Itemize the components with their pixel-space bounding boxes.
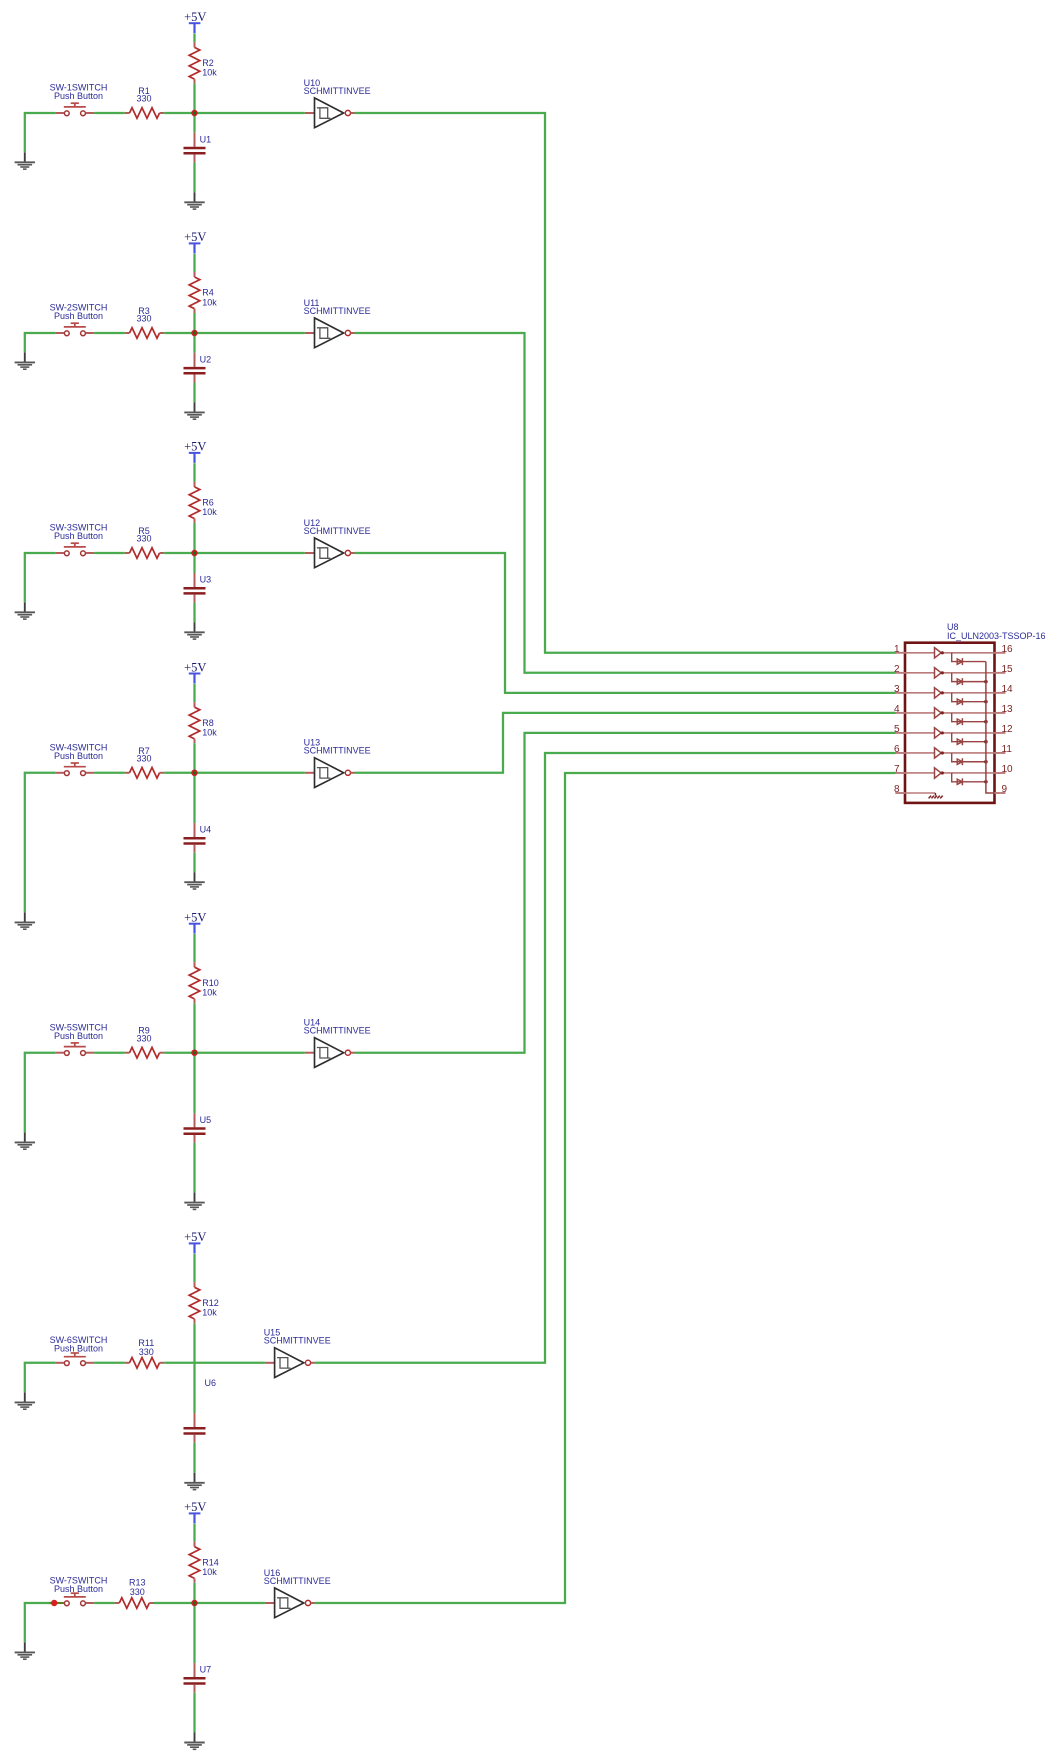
- wire node to capacitor U3: [193, 553, 195, 573]
- ground (below U7): [184, 1733, 204, 1750]
- wire R2 to node (block 1): [193, 83, 195, 113]
- capacitor U1: [184, 133, 206, 163]
- junction (U8 bus row 7): [984, 780, 988, 784]
- junction (U8 bus row 3): [984, 700, 988, 704]
- resistor R13 330 (series): [115, 1598, 154, 1609]
- svg-text:10k: 10k: [202, 68, 217, 78]
- resistor R3 330 (series): [125, 328, 164, 339]
- svg-text:+5V: +5V: [184, 660, 206, 674]
- wire +5V to R8: [193, 684, 195, 702]
- svg-text:+5V: +5V: [184, 10, 206, 24]
- ground (U8 pin 8 internal): [905, 793, 943, 798]
- diode (U8 row 4): [952, 713, 986, 725]
- svg-text:10k: 10k: [202, 1308, 217, 1318]
- wire R11 to node (block 6): [164, 1362, 194, 1364]
- U8 pin 5 (input): [894, 724, 905, 735]
- wire U1 to ground: [193, 162, 195, 192]
- label U15 SCHMITTINVEE: [264, 1328, 331, 1346]
- wire U12 output to U8 pin 3: [355, 553, 896, 693]
- U8 pin 11 (output): [995, 744, 1013, 755]
- ground (below U5): [184, 1193, 204, 1210]
- wire U2 to ground: [193, 383, 195, 403]
- resistor R5 330 (series): [125, 548, 164, 559]
- svg-text:R10: R10: [202, 978, 219, 988]
- wire ground to SW-2: [25, 333, 56, 352]
- wire SW-5 to R9: [94, 1052, 125, 1054]
- diode (U8 row 7): [952, 773, 986, 785]
- svg-text:14: 14: [1002, 684, 1014, 695]
- label R14 10k: [202, 1557, 219, 1577]
- label R13 330: [129, 1578, 146, 1597]
- svg-text:U1: U1: [200, 134, 212, 144]
- svg-text:2: 2: [894, 664, 900, 675]
- U8 pin 4 (input): [894, 704, 905, 715]
- junction (U8 bus row 2): [984, 680, 988, 684]
- wire ground to SW-1: [25, 113, 56, 152]
- U8 pin 8 (GND): [894, 784, 905, 795]
- label SW-5SWITCH Push Button: [50, 1022, 108, 1041]
- label R11 330: [138, 1338, 154, 1357]
- svg-text:Push Button: Push Button: [54, 1344, 103, 1354]
- wire node to U14 input: [195, 1052, 305, 1054]
- label SW-6SWITCH Push Button: [50, 1335, 108, 1354]
- U8 pin 12 (output): [995, 724, 1014, 735]
- wire node to U12 input: [195, 552, 305, 554]
- wire node to U15 input: [195, 1362, 265, 1364]
- power +5V (block 4): [184, 660, 206, 683]
- diode (U8 row 6): [952, 753, 986, 765]
- svg-text:6: 6: [894, 744, 900, 755]
- ground (below U4): [184, 872, 204, 889]
- inverter U16 SCHMITTINVEE: [265, 1588, 315, 1618]
- inverter U10 SCHMITTINVEE: [305, 98, 355, 128]
- wire R7 to node (block 4): [164, 772, 194, 774]
- svg-text:IC_ULN2003-TSSOP-16: IC_ULN2003-TSSOP-16: [947, 631, 1046, 641]
- wire U10 output to U8 pin 1: [355, 113, 896, 653]
- wire node to capacitor U4: [193, 773, 195, 823]
- node junction (block 7): [192, 1600, 198, 1606]
- label R9 330: [136, 1026, 151, 1044]
- svg-text:330: 330: [136, 534, 151, 544]
- U8 pin 14 (output): [995, 684, 1014, 695]
- svg-text:330: 330: [136, 314, 151, 324]
- label R2 10k: [202, 58, 217, 78]
- wire SW-2 to R3: [94, 332, 125, 334]
- resistor R12 10k (pull-up): [189, 1282, 200, 1323]
- wire overlap (left of SW-7): [50, 1602, 64, 1604]
- svg-text:U4: U4: [200, 825, 212, 835]
- switch SW-3 push button: [55, 543, 94, 555]
- wire node to U10 input: [195, 112, 305, 114]
- label R3 330: [136, 306, 151, 324]
- wire ground to SW-4: [25, 773, 56, 913]
- switch SW-6 push button: [55, 1353, 94, 1366]
- resistor R1 330 (series): [125, 108, 164, 119]
- label SW-2SWITCH Push Button: [50, 303, 108, 322]
- svg-text:U6: U6: [205, 1378, 217, 1388]
- resistor R7 330 (series): [125, 768, 164, 779]
- label SW-1SWITCH Push Button: [50, 83, 108, 102]
- wire ground to SW-6: [25, 1363, 56, 1393]
- wire R3 to node (block 2): [164, 332, 194, 334]
- wire U11 output to U8 pin 2: [355, 333, 896, 673]
- ground (below U1): [184, 192, 204, 209]
- wire node to capacitor U6: [193, 1363, 195, 1413]
- wire +5V to R10: [193, 934, 195, 962]
- buffer (U8 row 1): [905, 648, 995, 658]
- switch SW-1 push button: [55, 103, 94, 116]
- svg-text:330: 330: [136, 1033, 151, 1043]
- power +5V (block 7): [184, 1500, 206, 1523]
- label R8 10k: [202, 718, 217, 738]
- U8 pin 6 (input): [894, 744, 905, 755]
- label R4 10k: [202, 288, 217, 308]
- buffer (U8 row 3): [905, 688, 995, 698]
- svg-text:Push Button: Push Button: [54, 91, 103, 101]
- ground (left, block 2): [15, 352, 35, 369]
- wire SW-7 to R13: [94, 1602, 114, 1604]
- wire node to capacitor U2: [193, 333, 195, 353]
- U8 pin 16 (output): [995, 644, 1014, 655]
- resistor R6 10k (pull-up): [189, 482, 200, 523]
- wire SW-3 to R5: [94, 552, 125, 554]
- svg-text:3: 3: [894, 684, 900, 695]
- svg-text:11: 11: [1002, 744, 1013, 755]
- svg-text:10k: 10k: [202, 728, 217, 738]
- label U16 SCHMITTINVEE: [264, 1568, 331, 1586]
- svg-text:SCHMITTINVEE: SCHMITTINVEE: [304, 86, 371, 96]
- svg-text:12: 12: [1002, 724, 1014, 735]
- wire R10 to node (block 5): [193, 1003, 195, 1052]
- svg-text:+5V: +5V: [184, 1500, 206, 1514]
- power +5V (block 6): [184, 1230, 206, 1253]
- capacitor U7: [184, 1663, 206, 1693]
- svg-text:330: 330: [136, 94, 151, 104]
- svg-text:1: 1: [894, 644, 900, 655]
- node junction (block 4): [192, 770, 198, 776]
- wire ground to SW-5: [25, 1053, 56, 1133]
- wire U6 to ground: [193, 1443, 195, 1473]
- buffer (U8 row 6): [905, 748, 995, 758]
- inverter U15 SCHMITTINVEE: [265, 1348, 315, 1378]
- U8 pin 1 (input): [894, 644, 905, 655]
- svg-text:Push Button: Push Button: [54, 751, 103, 761]
- wire SW-1 to R1: [94, 112, 125, 114]
- label U10 SCHMITTINVEE: [304, 78, 371, 96]
- wire node to U11 input: [195, 332, 305, 334]
- capacitor U4: [184, 823, 206, 853]
- label SW-7SWITCH Push Button: [50, 1575, 108, 1594]
- U8 pin 7 (input): [894, 764, 905, 775]
- wire ground to SW-7: [25, 1603, 56, 1642]
- svg-text:R4: R4: [202, 288, 214, 298]
- ground (below U3): [184, 622, 204, 639]
- buffer (U8 row 7): [905, 768, 995, 778]
- power +5V (block 1): [184, 10, 206, 33]
- diode (U8 row 5): [952, 733, 986, 745]
- label U14 SCHMITTINVEE: [304, 1018, 371, 1036]
- bus wire diodes to pin 9: [986, 662, 995, 793]
- switch SW-5 push button: [55, 1043, 94, 1056]
- svg-text:16: 16: [1002, 644, 1014, 655]
- wire node to capacitor U5: [193, 1053, 195, 1114]
- wire +5V to R6: [193, 463, 195, 482]
- svg-text:+5V: +5V: [184, 230, 206, 244]
- inverter U13 SCHMITTINVEE: [305, 758, 355, 788]
- wire node to capacitor U1: [193, 113, 195, 133]
- capacitor U3: [184, 573, 206, 603]
- ground (below U6): [184, 1473, 204, 1490]
- node dot (left of SW-7): [51, 1600, 57, 1606]
- label R10 10k: [202, 978, 219, 998]
- inverter U12 SCHMITTINVEE: [305, 538, 355, 568]
- diode (U8 row 2): [952, 673, 986, 685]
- node junction (block 3): [192, 550, 198, 556]
- power +5V (block 2): [184, 230, 206, 253]
- svg-text:5: 5: [894, 724, 900, 735]
- switch SW-4 push button: [55, 763, 94, 775]
- label U12 SCHMITTINVEE: [304, 518, 371, 536]
- node junction (block 5): [192, 1050, 198, 1056]
- wire U13 output to U8 pin 4: [355, 713, 896, 773]
- wire U16 output to U8 pin 7: [315, 773, 896, 1603]
- svg-text:R8: R8: [202, 718, 214, 728]
- svg-text:+5V: +5V: [184, 440, 206, 454]
- wire +5V to R4: [193, 254, 195, 272]
- svg-text:U3: U3: [200, 575, 212, 585]
- ground (left, block 6): [15, 1392, 35, 1409]
- diode (U8 row 3): [952, 693, 986, 705]
- resistor R9 330 (series): [125, 1047, 164, 1058]
- wire R5 to node (block 3): [164, 552, 194, 554]
- svg-text:Push Button: Push Button: [54, 531, 103, 541]
- svg-text:13: 13: [1002, 704, 1014, 715]
- wire U4 to ground: [193, 853, 195, 873]
- label R6 10k: [202, 498, 217, 518]
- resistor R8 10k (pull-up): [189, 702, 200, 743]
- U8 pin 15 (output): [995, 664, 1014, 675]
- svg-text:15: 15: [1002, 664, 1014, 675]
- ground (left, block 3): [15, 602, 35, 619]
- label U8 IC_ULN2003-TSSOP-16: [947, 622, 1046, 641]
- wire +5V to R14: [193, 1524, 195, 1542]
- svg-text:10: 10: [1002, 764, 1014, 775]
- wire SW-4 to R7: [94, 772, 125, 774]
- wire R8 to node (block 4): [193, 743, 195, 773]
- ground (left, block 1): [15, 152, 35, 169]
- svg-text:4: 4: [894, 704, 900, 715]
- IC U8 ULN2003 body: [905, 643, 995, 803]
- resistor R10 10k (pull-up): [189, 962, 200, 1003]
- inverter U11 SCHMITTINVEE: [305, 318, 355, 348]
- svg-text:8: 8: [894, 784, 900, 795]
- svg-text:Push Button: Push Button: [54, 1031, 103, 1041]
- svg-text:Push Button: Push Button: [54, 1584, 103, 1594]
- label R7 330: [136, 746, 151, 764]
- wire R1 to node (block 1): [164, 112, 194, 114]
- U8 pin 9 (COM): [995, 784, 1008, 795]
- wire U15 output to U8 pin 6: [315, 753, 896, 1363]
- label U11 SCHMITTINVEE: [304, 298, 371, 316]
- node junction (block 2): [192, 330, 198, 336]
- U8 pin 13 (output): [995, 704, 1014, 715]
- wire ground to SW-3: [25, 553, 56, 602]
- wire +5V to R2: [193, 34, 195, 43]
- svg-text:SCHMITTINVEE: SCHMITTINVEE: [304, 526, 371, 536]
- label R5 330: [136, 526, 151, 544]
- buffer (U8 row 2): [905, 668, 995, 678]
- wire node to U13 input: [195, 772, 305, 774]
- capacitor U2: [184, 353, 206, 383]
- svg-text:R2: R2: [202, 58, 214, 68]
- svg-text:R6: R6: [202, 498, 214, 508]
- svg-text:U5: U5: [200, 1115, 212, 1125]
- wire U7 to ground: [193, 1693, 195, 1733]
- wire R12 to node (block 6): [193, 1323, 195, 1363]
- power +5V (block 5): [184, 911, 206, 934]
- svg-text:SCHMITTINVEE: SCHMITTINVEE: [304, 1026, 371, 1036]
- wire U5 to ground: [193, 1143, 195, 1193]
- capacitor U5: [184, 1113, 206, 1143]
- wire U3 to ground: [193, 603, 195, 623]
- svg-text:10k: 10k: [202, 297, 217, 307]
- wire R4 to node (block 2): [193, 313, 195, 333]
- junction (U8 bus row 4): [984, 720, 988, 724]
- capacitor U6: [184, 1413, 206, 1443]
- label R12 10k: [202, 1298, 219, 1318]
- svg-text:U7: U7: [200, 1665, 212, 1675]
- svg-text:SCHMITTINVEE: SCHMITTINVEE: [264, 1576, 331, 1586]
- label U13 SCHMITTINVEE: [304, 738, 371, 756]
- svg-text:10k: 10k: [202, 507, 217, 517]
- svg-text:10k: 10k: [202, 1567, 217, 1577]
- switch SW-7 push button: [55, 1593, 94, 1606]
- svg-text:SCHMITTINVEE: SCHMITTINVEE: [304, 746, 371, 756]
- wire R13 to node (block 7): [154, 1602, 195, 1604]
- svg-text:Push Button: Push Button: [54, 311, 103, 321]
- wire R6 to node (block 3): [193, 523, 195, 553]
- svg-text:330: 330: [130, 1587, 145, 1597]
- resistor R4 10k (pull-up): [189, 272, 200, 313]
- svg-text:9: 9: [1002, 784, 1008, 795]
- U8 pin 2 (input): [894, 664, 905, 675]
- ground (left, block 7): [15, 1642, 35, 1659]
- junction (U8 bus row 5): [984, 740, 988, 744]
- U8 pin 3 (input): [894, 684, 905, 695]
- svg-text:7: 7: [894, 764, 900, 775]
- resistor R2 10k (pull-up): [189, 42, 200, 83]
- power +5V (block 3): [184, 440, 206, 463]
- switch SW-2 push button: [55, 323, 94, 335]
- label SW-4SWITCH Push Button: [50, 742, 108, 761]
- wire SW-6 to R11: [94, 1362, 125, 1364]
- U8 pin 10 (output): [995, 764, 1014, 775]
- inverter U14 SCHMITTINVEE: [305, 1038, 355, 1068]
- svg-text:SCHMITTINVEE: SCHMITTINVEE: [264, 1336, 331, 1346]
- svg-text:330: 330: [136, 753, 151, 763]
- buffer (U8 row 4): [905, 708, 995, 718]
- svg-text:10k: 10k: [202, 988, 217, 998]
- svg-text:R12: R12: [202, 1298, 219, 1308]
- svg-text:U2: U2: [200, 354, 212, 364]
- resistor R14 10k (pull-up): [189, 1542, 200, 1583]
- svg-text:330: 330: [139, 1347, 154, 1357]
- ground (left, block 5): [15, 1132, 35, 1149]
- svg-text:R14: R14: [202, 1557, 219, 1567]
- wire node to capacitor U7: [193, 1603, 195, 1663]
- wire R14 to node (block 7): [193, 1583, 195, 1603]
- node junction (block 1): [192, 110, 198, 116]
- wire R9 to node (block 5): [164, 1052, 194, 1054]
- svg-text:+5V: +5V: [184, 1230, 206, 1244]
- wire node to U16 input: [195, 1602, 265, 1604]
- buffer (U8 row 5): [905, 728, 995, 738]
- label SW-3SWITCH Push Button: [50, 523, 108, 542]
- svg-text:+5V: +5V: [184, 911, 206, 925]
- ground (below U2): [184, 402, 204, 419]
- svg-text:SCHMITTINVEE: SCHMITTINVEE: [304, 306, 371, 316]
- junction (U8 bus row 6): [984, 760, 988, 764]
- wire U14 output to U8 pin 5: [355, 733, 896, 1053]
- label R1 330: [136, 86, 151, 104]
- ground (left, block 4): [15, 912, 35, 929]
- wire +5V to R12: [193, 1254, 195, 1283]
- resistor R11 330 (series): [125, 1358, 164, 1369]
- diode (U8 row 1): [952, 653, 986, 665]
